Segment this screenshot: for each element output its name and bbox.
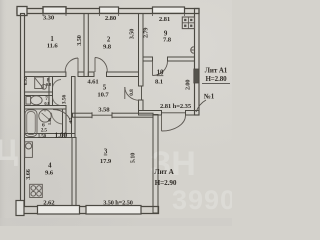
svg-text:1.5: 1.5 — [68, 117, 73, 123]
toilet tank room 7 — [26, 97, 31, 105]
door corridor-room10: leaf — [124, 87, 126, 99]
toilet bowl room 7 — [31, 96, 43, 105]
bottom wall of lit A1 (annex) left segment — [139, 111, 162, 116]
svg-text:2.80: 2.80 — [105, 15, 117, 22]
washbasin room 6 — [39, 110, 51, 122]
room 3 top wall left segment — [73, 113, 93, 117]
door lobby bottom: arc — [53, 110, 71, 124]
jamb tick left — [91, 112, 93, 118]
door room1: leaf — [77, 58, 79, 72]
threshold of entrance door N1 — [162, 112, 186, 114]
wall between rooms 2,5 and 9,10 — [139, 14, 144, 87]
svg-text:3.50 h=2.50: 3.50 h=2.50 — [103, 199, 133, 206]
dark pier in right wall — [194, 69, 199, 83]
top-left corner block — [17, 7, 27, 16]
door room9-room10: arc — [153, 61, 168, 76]
fixtures — [25, 17, 195, 198]
door room1: arc — [65, 58, 78, 72]
bottom wall of lit A1 right segment — [186, 111, 200, 116]
stove kitchen — [30, 184, 43, 197]
corridor top wall right segment (under room 2) — [107, 72, 139, 77]
svg-text:7.8: 7.8 — [163, 37, 172, 44]
door room7: arc small — [53, 97, 62, 106]
door room8: arc small — [53, 80, 62, 89]
wall between kitchen 4 and room 3 — [72, 138, 76, 208]
room 3 right exterior wall — [153, 115, 158, 214]
svg-text:1.00: 1.00 — [55, 130, 68, 139]
svg-text:1.50: 1.50 — [38, 135, 47, 140]
gas mark room 9 — [191, 47, 194, 53]
wall between room 7 and bath 6 — [25, 106, 67, 110]
corridor top wall stub between doors — [78, 72, 84, 77]
window W4 kitchen bottom — [38, 206, 80, 215]
corridor top wall left segment (under room 1) — [25, 72, 66, 77]
window W3 room 9 — [153, 7, 185, 13]
threshold corridor-room10 door — [141, 86, 143, 100]
door arcs — [52, 58, 186, 132]
svg-text:10.7: 10.7 — [97, 91, 109, 98]
svg-text:3.50: 3.50 — [129, 29, 136, 39]
window W1 room 1 — [43, 7, 66, 14]
lobby right wall — [72, 77, 76, 138]
svg-text:9.8: 9.8 — [103, 43, 112, 50]
bottom wall under bath 6 and lobby — [25, 134, 76, 138]
bottom-left corner block — [16, 201, 24, 216]
bath 6 right wall — [63, 109, 67, 138]
svg-text:2.81 h=2.35: 2.81 h=2.35 — [160, 103, 192, 110]
entrance door N1: arc — [162, 116, 186, 132]
bottom exterior wall — [17, 207, 159, 214]
door room2: arc — [95, 58, 107, 73]
wall between rooms 8 and 7 — [25, 92, 53, 96]
door room9-room10: leaf — [152, 61, 154, 76]
rotated dimension labels — [24, 28, 192, 180]
svg-text:0.8: 0.8 — [46, 82, 52, 87]
svg-text:ЗН: ЗН — [150, 145, 196, 183]
svg-text:17.9: 17.9 — [100, 158, 112, 165]
water heater kitchen — [25, 142, 33, 158]
shower tray room 8 — [35, 77, 44, 89]
shower tray diagonal — [35, 78, 43, 88]
watermark letters bottom right — [150, 145, 236, 215]
wall between room 1 and room 2 — [84, 14, 88, 77]
svg-text:2.00: 2.00 — [185, 80, 192, 90]
arrow curve from N1 label to entrance — [196, 100, 206, 112]
door corridor-room10: arc — [125, 87, 139, 100]
svg-text:0.8: 0.8 — [129, 89, 135, 96]
svg-text:Ц: Ц — [0, 134, 18, 167]
svg-text:0.8: 0.8 — [44, 101, 50, 106]
svg-text:5.10: 5.10 — [130, 153, 137, 163]
water heater circle — [26, 143, 32, 149]
svg-text:2.62: 2.62 — [43, 199, 55, 206]
svg-text:Н=2.90: Н=2.90 — [155, 179, 177, 187]
jamb tick right — [111, 112, 113, 118]
svg-text:3.66: 3.66 — [25, 169, 32, 179]
svg-text:2.79: 2.79 — [143, 28, 150, 38]
svg-text:9.6: 9.6 — [45, 169, 54, 176]
bathtub room 6 — [25, 110, 37, 137]
svg-text:1.46: 1.46 — [47, 118, 52, 125]
svg-text:Лит А1: Лит А1 — [205, 67, 228, 75]
svg-text:3.30: 3.30 — [43, 15, 55, 22]
svg-text:11.6: 11.6 — [47, 42, 59, 49]
window W2 room 2 — [100, 7, 119, 13]
washbasin cross mark — [42, 113, 49, 119]
underline below H=2.80 — [202, 83, 230, 85]
wall between room 9 and room 10 — [143, 57, 153, 61]
svg-text:0.92: 0.92 — [24, 76, 29, 85]
door bath6: arc small — [52, 113, 63, 124]
svg-text:2.5: 2.5 — [41, 128, 48, 134]
left exterior wall — [21, 14, 25, 206]
door room2: leaf — [94, 58, 96, 73]
svg-text:3.58: 3.58 — [98, 107, 110, 114]
right exterior wall upper block — [195, 9, 200, 116]
watermark letters left edge — [0, 134, 18, 167]
svg-text:10: 10 — [157, 69, 164, 76]
paper background — [0, 0, 232, 226]
svg-text:3.50: 3.50 — [76, 35, 83, 45]
svg-text:3.56: 3.56 — [62, 95, 68, 105]
subtle paper shading — [0, 0, 1, 1]
svg-text:2.81: 2.81 — [159, 16, 170, 23]
svg-text:Лит А: Лит А — [154, 168, 174, 176]
svg-text:4.61: 4.61 — [87, 79, 98, 86]
washbasin faucet — [44, 109, 46, 112]
bathtub inner outline — [27, 112, 35, 135]
svg-text:Н=2.80: Н=2.80 — [205, 75, 227, 83]
top exterior wall — [17, 9, 199, 14]
svg-text:8.1: 8.1 — [155, 78, 163, 85]
lobby left wall upper (rooms 8,7) — [49, 77, 53, 106]
window W5 room 3 bottom — [86, 206, 141, 215]
svg-text:3990: 3990 — [172, 185, 232, 215]
room 3 top wall right segment — [112, 113, 153, 117]
threshold room3 door — [92, 114, 112, 116]
svg-text:№1: №1 — [203, 92, 215, 100]
entrance door N1: leaf — [161, 115, 163, 131]
witness ticks for windows — [43, 14, 185, 17]
vent block room 9 — [182, 17, 194, 29]
small basin room 8 — [42, 84, 47, 89]
